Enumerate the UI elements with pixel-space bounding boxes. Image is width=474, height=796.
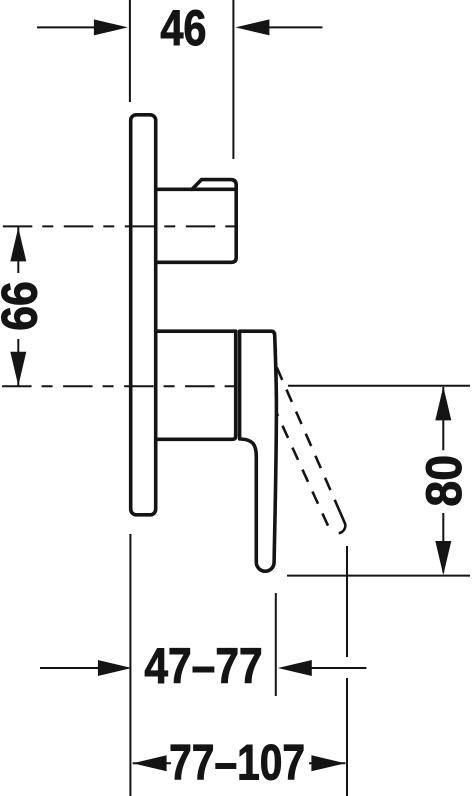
- svg-text:66: 66: [0, 281, 48, 330]
- svg-text:77–107: 77–107: [169, 734, 305, 790]
- svg-text:80: 80: [416, 455, 472, 507]
- svg-text:47–77: 47–77: [144, 638, 262, 694]
- svg-text:46: 46: [160, 0, 206, 56]
